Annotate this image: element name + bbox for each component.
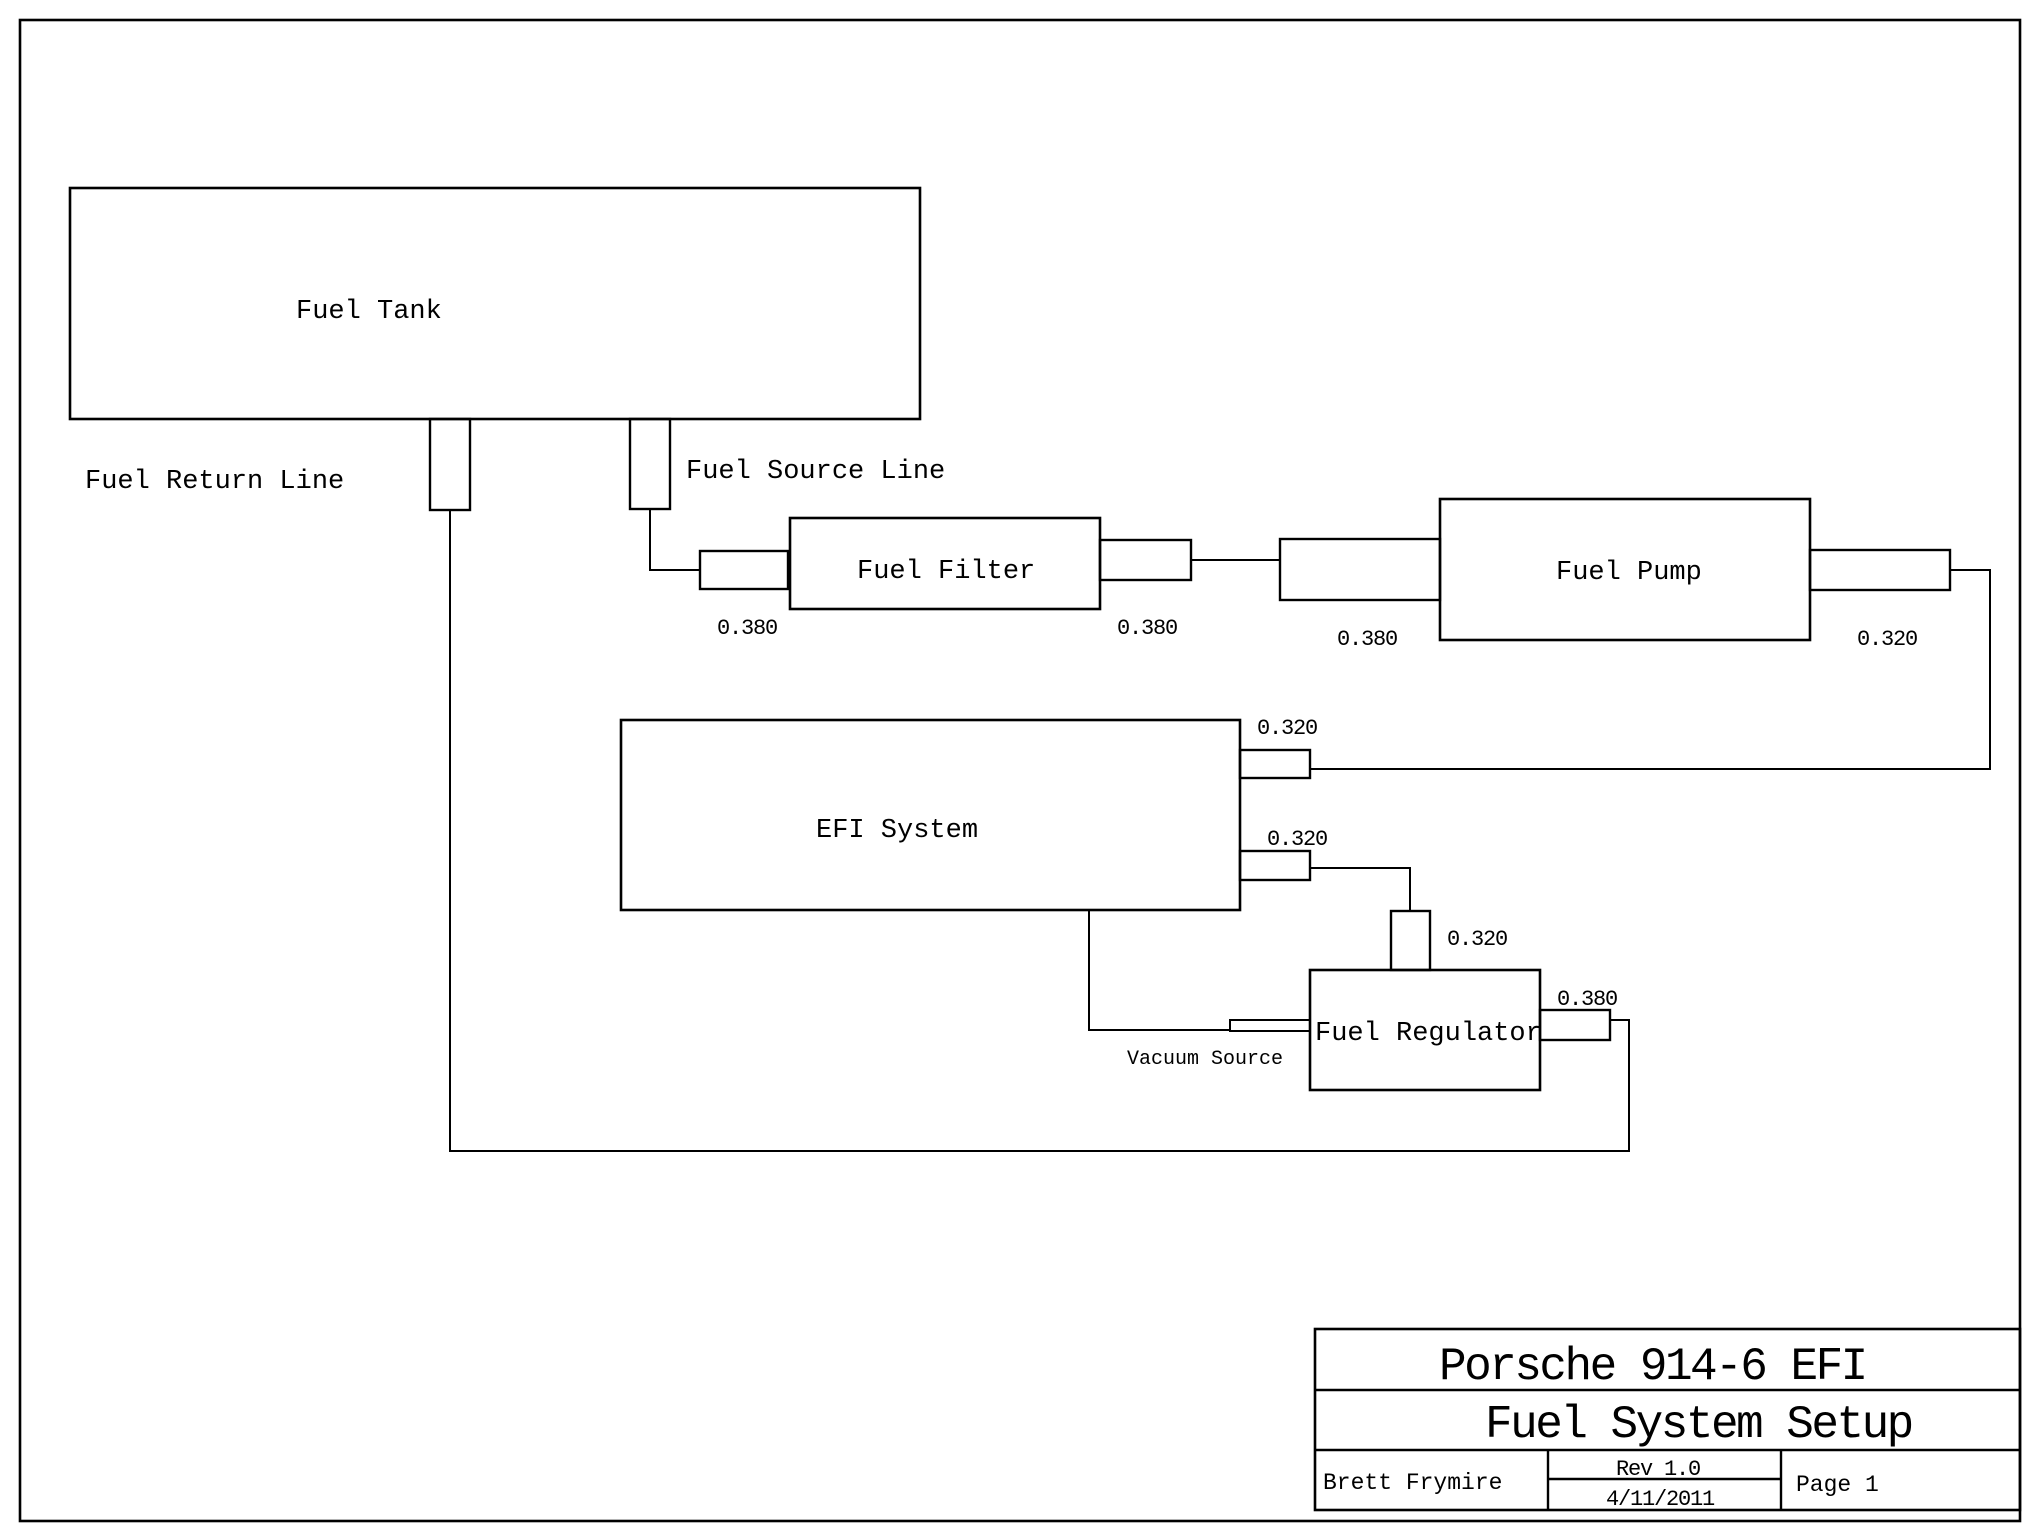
fuel filter box (790, 518, 1100, 609)
title block divider between rev and date (1548, 1478, 1781, 1480)
title block divider under subtitle row (1315, 1449, 2020, 1451)
EFI supply port connector (1240, 750, 1310, 778)
svg-text:0.380: 0.380 (1337, 627, 1397, 652)
title block divider under title row (1315, 1389, 2020, 1391)
wire: regulator outlet return line to tank (450, 510, 1629, 1151)
svg-text:Vacuum Source: Vacuum Source (1127, 1048, 1283, 1071)
svg-text:Fuel Regulator: Fuel Regulator (1315, 1019, 1542, 1049)
fuel pump box (1440, 499, 1810, 640)
svg-text:0.320: 0.320 (1267, 827, 1327, 852)
svg-text:Fuel Tank: Fuel Tank (296, 297, 442, 327)
filter inlet hose connector (700, 551, 788, 589)
svg-text:Fuel Pump: Fuel Pump (1556, 558, 1702, 588)
pump outlet hose connector (1810, 550, 1950, 590)
regulator top connector (1391, 911, 1430, 970)
svg-text:0.320: 0.320 (1447, 927, 1507, 952)
fuel source stub connector (630, 419, 670, 509)
svg-text:0.380: 0.380 (717, 616, 777, 641)
fuel tank box (70, 188, 920, 419)
svg-text:Rev 1.0: Rev 1.0 (1616, 1457, 1700, 1482)
wire: EFI vacuum port down and right (1089, 910, 1230, 1030)
regulator outlet hose connector (1540, 1010, 1610, 1040)
svg-text:Page 1: Page 1 (1796, 1472, 1879, 1498)
svg-text:4/11/2011: 4/11/2011 (1606, 1487, 1715, 1512)
svg-text:Fuel Source Line: Fuel Source Line (686, 457, 945, 487)
svg-text:Fuel Filter: Fuel Filter (857, 557, 1035, 587)
pump inlet hose connector (1280, 539, 1440, 600)
svg-text:Brett Frymire: Brett Frymire (1323, 1470, 1502, 1496)
wire: source stub to filter inlet (650, 509, 700, 570)
svg-text:Porsche 914-6 EFI: Porsche 914-6 EFI (1439, 1341, 1866, 1393)
title block outer frame (1315, 1329, 2020, 1510)
svg-text:0.320: 0.320 (1857, 627, 1917, 652)
EFI system box (621, 720, 1240, 910)
fuel regulator box (1310, 970, 1540, 1090)
svg-text:Fuel System Setup: Fuel System Setup (1485, 1399, 1912, 1451)
svg-text:EFI System: EFI System (816, 816, 978, 846)
wire: pump outlet to EFI supply port (1310, 570, 1990, 769)
svg-text:Fuel Return Line: Fuel Return Line (85, 467, 344, 497)
wire: EFI return port to regulator top (1310, 868, 1410, 911)
svg-text:0.380: 0.380 (1117, 616, 1177, 641)
title block vertical divider left of rev cell (1547, 1450, 1549, 1510)
EFI return port connector (1240, 851, 1310, 880)
title block vertical divider right of rev cell (1780, 1450, 1782, 1510)
vacuum hose connector (1230, 1020, 1310, 1031)
fuel return stub connector (430, 419, 470, 510)
svg-text:0.320: 0.320 (1257, 716, 1317, 741)
wire: filter outlet to pump inlet (1191, 559, 1280, 561)
filter outlet hose connector (1100, 540, 1191, 580)
svg-text:0.380: 0.380 (1557, 987, 1617, 1012)
